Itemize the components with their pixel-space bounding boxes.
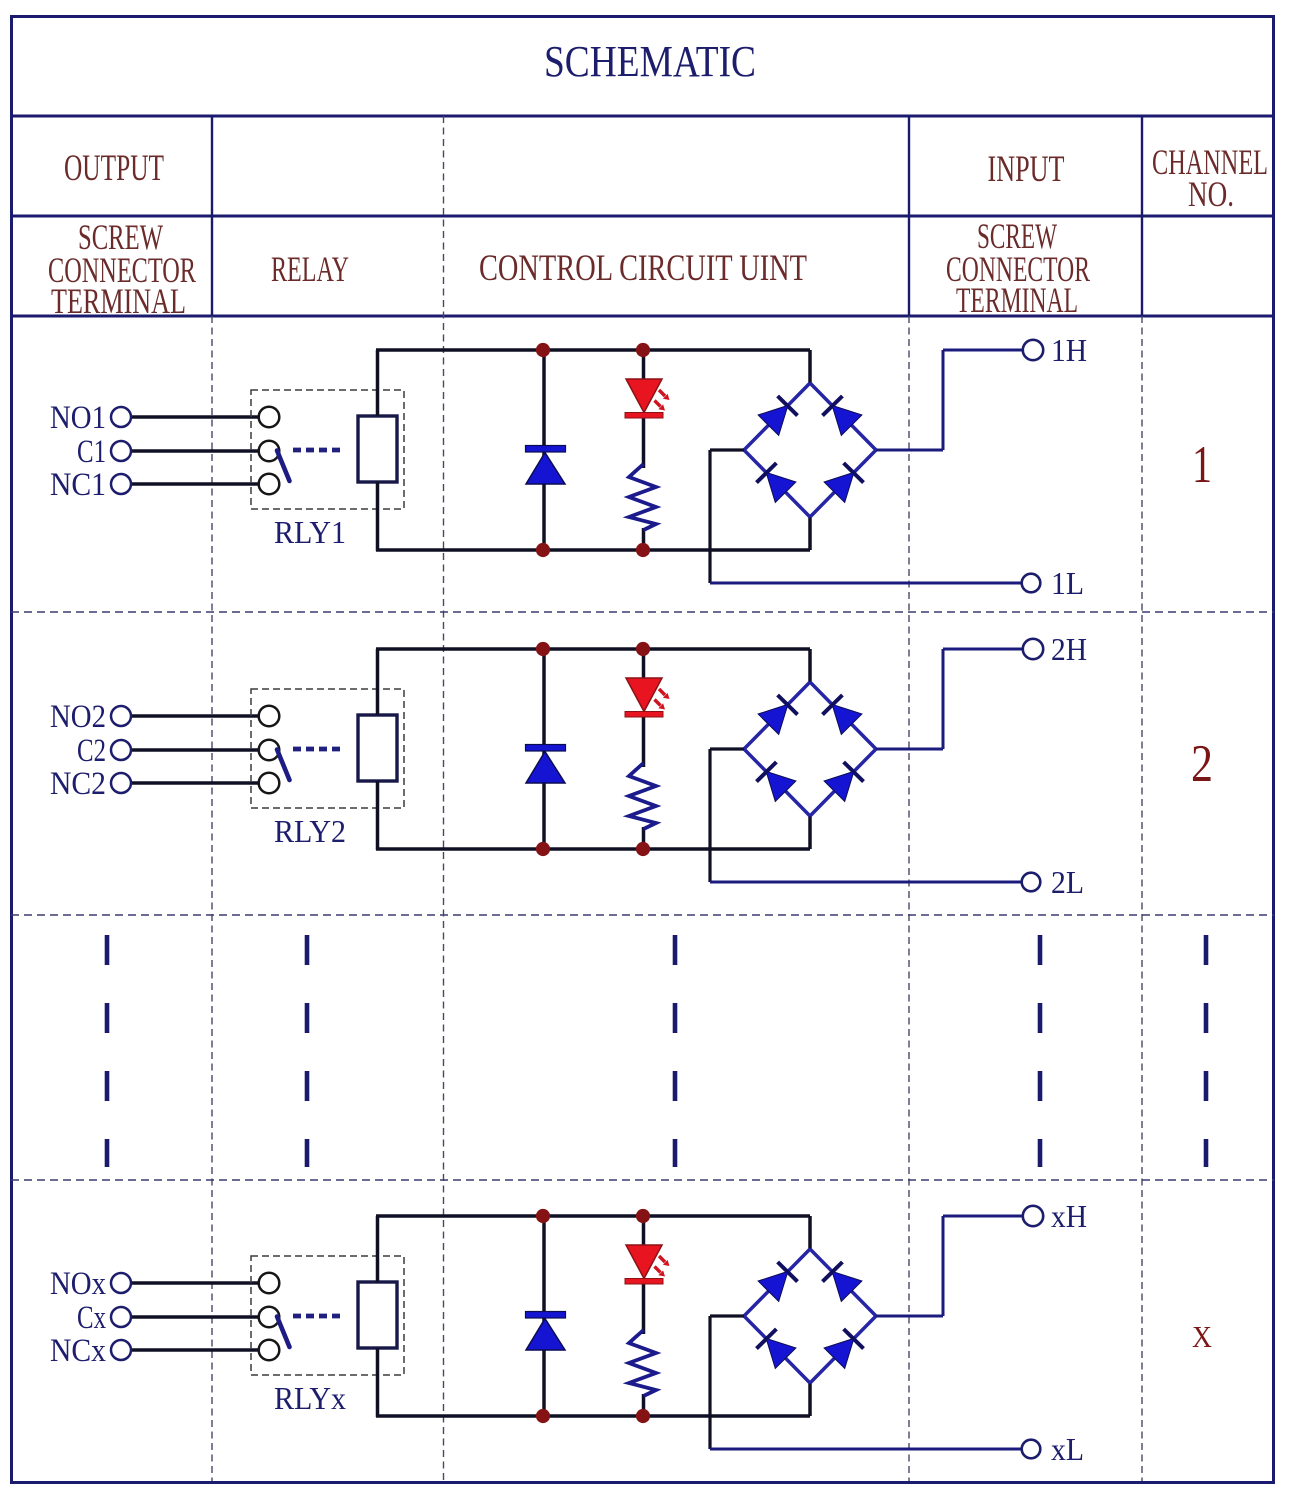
terminal NCx [111, 1340, 131, 1360]
bridge diode BR1-1 [778, 396, 798, 416]
terminal NOx [111, 1273, 131, 1293]
relay contact C1 [259, 441, 280, 462]
bridge diode BR2-1 [778, 695, 798, 715]
wire coil bottom [376, 482, 380, 551]
relay actuator dashed link [293, 448, 341, 453]
LEDx indicator [625, 1245, 670, 1284]
wire coil bottom [376, 1348, 380, 1417]
resistor Rx [629, 1330, 656, 1396]
diode D2 (flyback) [526, 745, 566, 784]
input terminal xH [1023, 1206, 1043, 1226]
terminal NO2 [111, 706, 131, 726]
bridge diode BR1-4 [844, 463, 864, 483]
bridge diode BR1-2 [823, 396, 843, 416]
svg-text:NC1: NC1 [50, 467, 106, 503]
wire bridge left to 2L [710, 749, 1023, 882]
input terminal 1H [1023, 340, 1043, 360]
table grid lines [11, 116, 1274, 316]
wire NO2 lead [131, 714, 260, 717]
bridge diode BRx-2 [823, 1262, 843, 1282]
relay RLY2 dashed outline [251, 689, 404, 808]
svg-text:NO1: NO1 [50, 400, 106, 436]
relay actuator dashed link [293, 747, 341, 752]
relay contact NO1 [259, 407, 280, 428]
label SCREW CONNECTOR TERMINAL (output) [48, 217, 196, 321]
wire coil top [376, 350, 380, 416]
svg-text:xL: xL [1051, 1431, 1084, 1467]
svg-text:SCHEMATIC: SCHEMATIC [544, 37, 756, 86]
wire coil top [376, 649, 380, 715]
input terminal xL [1022, 1440, 1041, 1459]
svg-text:Cx: Cx [77, 1300, 106, 1336]
relay coil RLYx [358, 1282, 397, 1348]
wire diode branch [542, 1216, 546, 1416]
bridge rectifier BR1 [744, 383, 876, 517]
svg-text:NCx: NCx [50, 1333, 106, 1369]
relay switch arm [277, 1317, 290, 1348]
relay contact NO2 [259, 706, 280, 727]
svg-text:RELAY: RELAY [271, 249, 349, 289]
bridge diode BRx-4 [844, 1329, 864, 1349]
input terminal 1L [1022, 574, 1041, 593]
terminal NC2 [111, 773, 131, 793]
svg-text:TERMINAL: TERMINAL [956, 280, 1078, 320]
bridge diode BR2-4 [844, 762, 864, 782]
relay RLYx dashed outline [251, 1256, 404, 1375]
relay switch arm [277, 451, 290, 482]
wire NC1 lead [131, 482, 260, 485]
junction node xa [536, 1209, 550, 1223]
svg-text:RLYx: RLYx [274, 1380, 346, 1416]
svg-text:2L: 2L [1051, 864, 1084, 900]
relay contact NOx [259, 1273, 280, 1294]
svg-text:2: 2 [1191, 735, 1213, 793]
terminal C1 [111, 441, 131, 461]
relay contact NC1 [259, 474, 280, 495]
wire bridge right to 1H [876, 350, 1023, 450]
wire NO1 lead [131, 415, 260, 418]
wire NOx lead [131, 1281, 260, 1284]
wire LED to resistor [642, 1282, 646, 1334]
svg-text:1: 1 [1192, 436, 1212, 494]
wire NCx lead [131, 1348, 260, 1351]
dashed column separators [212, 116, 1142, 1481]
junction node xd [636, 1409, 650, 1423]
svg-text:CONTROL CIRCUIT UINT: CONTROL CIRCUIT UINT [479, 248, 807, 289]
relay coil RLY2 [358, 715, 397, 781]
terminal Cx [111, 1307, 131, 1327]
wire Cx lead [131, 1315, 260, 1318]
relay contact NCx [259, 1340, 280, 1361]
wire resistor bottom [642, 1394, 646, 1416]
bridge diode BR2-2 [823, 695, 843, 715]
diode D1 (flyback) [526, 446, 566, 485]
bridge diode BR1-3 [757, 463, 777, 483]
wire bridge bottom drop [808, 1381, 812, 1416]
wire resistor bottom [642, 827, 646, 849]
relay contact Cx [259, 1307, 280, 1328]
terminal C2 [111, 740, 131, 760]
relay RLY1 dashed outline [251, 390, 404, 509]
wire bottom rail [376, 548, 810, 552]
svg-text:C2: C2 [77, 733, 106, 769]
wire bridge bottom drop [808, 814, 812, 849]
wire diode branch [542, 649, 546, 849]
terminal NO1 [111, 407, 131, 427]
junction node 1c [536, 543, 550, 557]
wire bridge right to xH [876, 1216, 1023, 1316]
relay switch arm [277, 750, 290, 781]
wire C1 lead [131, 449, 260, 452]
wire LED branch top [642, 649, 646, 680]
wire bridge left to xL [710, 1316, 1023, 1449]
wire C2 lead [131, 748, 260, 751]
svg-text:X: X [1192, 1319, 1212, 1354]
junction node 2d [636, 842, 650, 856]
wire bridge top drop [808, 1216, 812, 1251]
label CHANNEL NO. [1152, 142, 1268, 214]
dashed row separators [11, 612, 1274, 1180]
wire resistor bottom [642, 528, 646, 550]
junction node 2a [536, 642, 550, 656]
resistor R2 [629, 763, 656, 829]
bridge rectifier BR2 [744, 682, 876, 816]
wire bottom rail [376, 847, 810, 851]
svg-text:RLY2: RLY2 [274, 813, 346, 849]
label SCREW CONNECTOR TERMINAL (input) [946, 216, 1090, 320]
bridge diode BRx-1 [778, 1262, 798, 1282]
bridge rectifier BRx [744, 1249, 876, 1383]
junction node 2c [536, 842, 550, 856]
svg-text:RLY1: RLY1 [274, 514, 346, 550]
junction node xc [536, 1409, 550, 1423]
wire NC2 lead [131, 781, 260, 784]
input terminal 2H [1023, 639, 1043, 659]
svg-text:TERMINAL: TERMINAL [51, 281, 186, 321]
relay contact C2 [259, 740, 280, 761]
bridge diode BRx-3 [757, 1329, 777, 1349]
wire top rail [376, 348, 810, 352]
relay actuator dashed link [293, 1314, 341, 1319]
LED1 indicator [625, 379, 670, 418]
junction node 2b [636, 642, 650, 656]
svg-text:xH: xH [1051, 1198, 1087, 1234]
relay coil RLY1 [358, 416, 397, 482]
bridge diode BR2-3 [757, 762, 777, 782]
svg-text:1L: 1L [1051, 565, 1084, 601]
svg-text:INPUT: INPUT [988, 149, 1065, 190]
diode Dx (flyback) [526, 1312, 566, 1351]
wire diode branch [542, 350, 546, 550]
wire LED to resistor [642, 715, 646, 767]
wire bridge top drop [808, 350, 812, 385]
wire coil top [376, 1216, 380, 1282]
wire bottom rail [376, 1414, 810, 1418]
wire LED branch top [642, 1216, 646, 1247]
junction node 1d [636, 543, 650, 557]
svg-text:1H: 1H [1051, 332, 1087, 368]
junction node 1b [636, 343, 650, 357]
svg-text:NOx: NOx [50, 1266, 106, 1302]
wire coil bottom [376, 781, 380, 850]
terminal NC1 [111, 474, 131, 494]
wire top rail [376, 647, 810, 651]
svg-text:NO2: NO2 [50, 699, 106, 735]
wire bridge right to 2H [876, 649, 1023, 749]
resistor R1 [629, 464, 656, 530]
relay contact NC2 [259, 773, 280, 794]
input terminal 2L [1022, 873, 1041, 892]
svg-text:OUTPUT: OUTPUT [64, 148, 164, 189]
svg-text:2H: 2H [1051, 631, 1087, 667]
svg-text:NC2: NC2 [50, 766, 106, 802]
junction node 1a [536, 343, 550, 357]
continuation marks (ellipsis dashes) [107, 935, 1206, 1167]
LED2 indicator [625, 678, 670, 717]
svg-text:C1: C1 [77, 434, 106, 470]
wire LED to resistor [642, 416, 646, 468]
wire bridge top drop [808, 649, 812, 684]
wire bridge bottom drop [808, 515, 812, 550]
junction node xb [636, 1209, 650, 1223]
wire LED branch top [642, 350, 646, 381]
wire top rail [376, 1214, 810, 1218]
svg-text:NO.: NO. [1188, 174, 1234, 214]
wire bridge left to 1L [710, 450, 1023, 583]
